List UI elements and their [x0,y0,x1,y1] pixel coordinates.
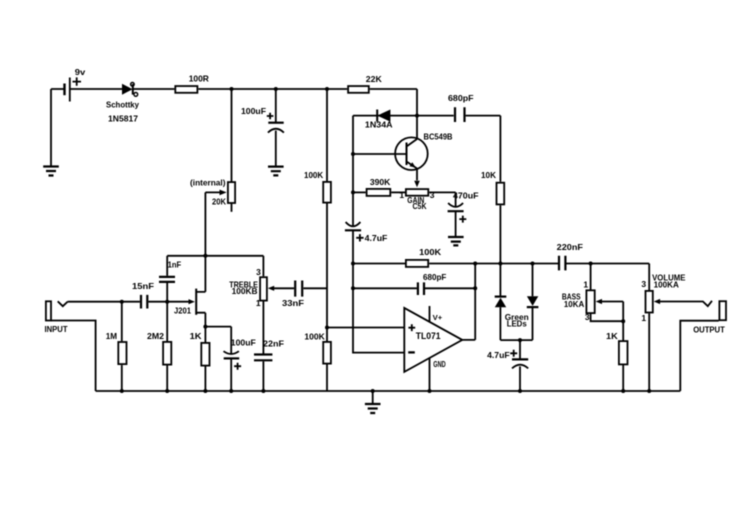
svg-text:1nF: 1nF [168,260,182,270]
svg-text:22nF: 22nF [263,338,284,348]
svg-text:100KA: 100KA [654,279,679,289]
svg-text:22K: 22K [366,74,383,84]
svg-text:100K: 100K [304,170,324,180]
svg-text:100uF: 100uF [241,106,266,116]
svg-text:100KB: 100KB [232,286,258,296]
svg-text:V+: V+ [433,313,443,322]
svg-text:10KA: 10KA [564,299,584,309]
svg-text:1: 1 [641,313,646,323]
svg-text:20K: 20K [212,197,227,207]
svg-text:100K: 100K [419,247,442,257]
svg-text:4.7uF: 4.7uF [365,233,388,243]
svg-text:INPUT: INPUT [45,325,68,334]
svg-text:390K: 390K [370,177,391,187]
svg-text:1K: 1K [606,331,619,341]
svg-text:LEDs: LEDs [507,319,527,329]
svg-text:680pF: 680pF [448,93,474,103]
svg-text:TL071: TL071 [416,331,441,341]
svg-text:1N5817: 1N5817 [108,113,138,123]
svg-text:2M2: 2M2 [147,331,164,341]
svg-text:3: 3 [430,190,435,200]
svg-text:OUTPUT: OUTPUT [693,326,725,335]
svg-text:1: 1 [583,279,588,289]
svg-text:(internal): (internal) [190,178,226,188]
svg-text:680pF: 680pF [423,272,446,282]
svg-text:100R: 100R [189,73,209,83]
svg-text:1K: 1K [190,331,203,341]
svg-text:1N34A: 1N34A [365,120,393,130]
svg-text:C5K: C5K [413,201,428,211]
svg-text:9v: 9v [75,67,86,77]
svg-text:3: 3 [585,312,590,322]
svg-text:470uF: 470uF [453,190,479,200]
svg-text:100uF: 100uF [231,337,256,347]
svg-text:4.7uF: 4.7uF [487,350,510,360]
svg-text:1M: 1M [106,331,117,341]
svg-text:J201: J201 [174,306,191,316]
svg-text:3: 3 [641,279,646,289]
svg-text:1: 1 [256,298,261,308]
svg-text:100K: 100K [304,331,325,341]
svg-text:1: 1 [399,190,404,200]
svg-text:GND: GND [433,359,445,369]
svg-text:33nF: 33nF [282,298,304,308]
svg-text:BC549B: BC549B [424,132,453,142]
svg-text:3: 3 [256,267,261,277]
svg-text:Schottky: Schottky [106,99,139,109]
svg-text:10K: 10K [481,170,497,180]
svg-text:15nF: 15nF [132,281,154,291]
svg-text:220nF: 220nF [557,242,583,252]
